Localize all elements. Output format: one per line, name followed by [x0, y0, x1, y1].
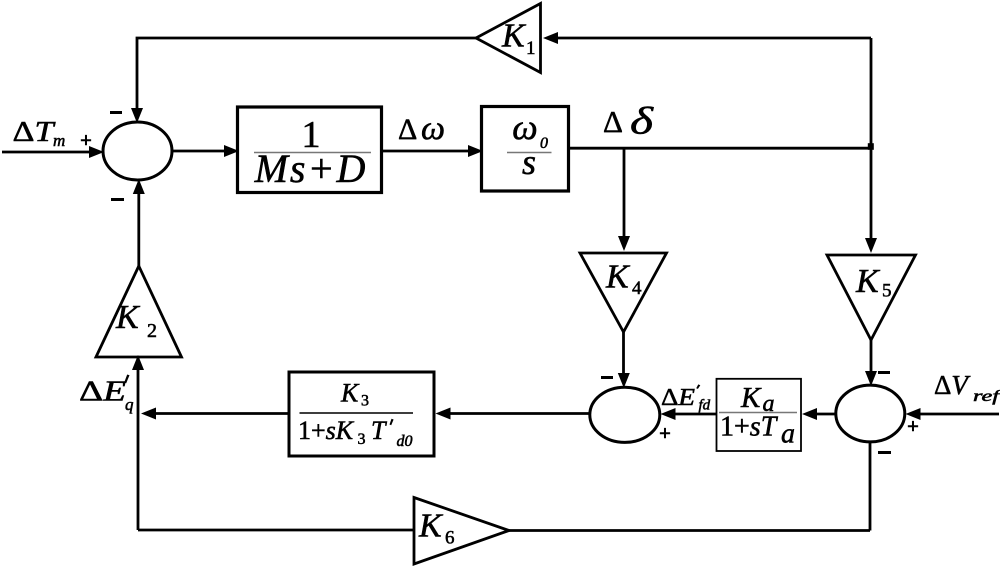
arrowhead into S1 bottom	[133, 179, 145, 194]
svg-text:+: +	[907, 414, 919, 438]
block B2 w0/s	[482, 107, 569, 192]
wire: right vertical rail bottom	[869, 442, 872, 531]
wire: S2 to B3	[445, 412, 590, 415]
svg-text:Ms+D: Ms+D	[254, 146, 368, 191]
svg-text:4: 4	[632, 278, 642, 299]
gain triangle K6	[414, 498, 509, 565]
block B4 text: Ka / 1+sTa	[719, 382, 797, 450]
arrowhead into S3 top	[865, 371, 877, 386]
wire: bottom rail left of K6	[138, 529, 414, 532]
summing junction S2	[590, 387, 660, 442]
wire: delta-omega row S1 to B1	[172, 150, 229, 153]
svg-text:Δ: Δ	[398, 113, 417, 146]
wire: delta line B2 to right rail	[569, 147, 872, 150]
label dEq'	[79, 375, 134, 415]
arrowhead into S1 left	[89, 146, 104, 158]
summing junction S1	[103, 122, 172, 180]
svg-text:+: +	[80, 128, 92, 152]
wire: B3 output to dEq node	[153, 412, 289, 415]
svg-text:1: 1	[526, 38, 536, 59]
arrowhead into K1 right edge	[543, 32, 558, 44]
svg-text:K: K	[115, 299, 141, 336]
svg-text:a: a	[781, 419, 795, 450]
svg-text:3: 3	[358, 431, 366, 448]
block B3 text: K3 / 1+sK3Td0'	[298, 379, 413, 451]
arrowhead into S1 top	[131, 108, 143, 123]
svg-text:q: q	[125, 395, 134, 414]
svg-text:K: K	[855, 263, 881, 300]
svg-text:6: 6	[445, 528, 455, 549]
sign - above S3	[878, 371, 890, 374]
svg-text:K: K	[740, 382, 762, 414]
svg-text:K: K	[501, 18, 527, 55]
sign - above S2	[601, 376, 613, 379]
svg-text:m: m	[53, 131, 65, 150]
svg-text:ω: ω	[421, 110, 445, 147]
sign - above S1	[110, 111, 122, 114]
label K5	[855, 263, 892, 302]
wire: top feedback horizontal left (K1 apex to left corner)	[137, 38, 476, 113]
svg-text:ΔV: ΔV	[934, 370, 971, 400]
junction nub on right rail	[868, 143, 874, 150]
arrowhead into dEq node	[141, 408, 156, 420]
svg-text:2: 2	[147, 320, 157, 342]
svg-text:ΔT: ΔT	[13, 116, 56, 148]
sign - below S3	[878, 451, 891, 454]
svg-text:ω: ω	[512, 107, 537, 147]
svg-text:5: 5	[882, 281, 892, 302]
wire: dVref input	[915, 413, 999, 416]
wire: K4 apex to S2	[622, 332, 625, 376]
svg-text:ΔE: ΔE	[661, 385, 695, 411]
svg-text:K: K	[340, 379, 360, 408]
svg-text:K: K	[418, 508, 444, 545]
arrowhead into B3 right	[436, 408, 451, 420]
arrowhead into B2 left	[468, 145, 483, 157]
svg-text:d0: d0	[397, 433, 413, 450]
svg-text:1+sT: 1+sT	[720, 412, 779, 443]
block B1 1/(Ms+D)	[238, 107, 382, 193]
wire: branch down to K4	[623, 148, 626, 240]
svg-text:ΔE: ΔE	[79, 376, 126, 408]
label dEfd'	[661, 384, 711, 413]
wire: input dTm horizontal	[2, 151, 95, 154]
svg-text:T: T	[371, 416, 387, 445]
svg-text:3: 3	[361, 393, 369, 410]
svg-text:1+sK: 1+sK	[298, 416, 355, 445]
svg-text:fd: fd	[699, 398, 711, 414]
arrowhead into S2 top	[618, 373, 630, 388]
svg-text:0: 0	[540, 135, 548, 152]
wire: right vertical rail top	[870, 38, 873, 240]
wire: B4 to S2	[671, 413, 717, 416]
arrowhead into K4 top	[618, 236, 630, 251]
svg-text:ref: ref	[973, 388, 1000, 405]
wire: B1 to B2	[382, 150, 474, 153]
block B4 Ka/(1+sTa)	[717, 379, 802, 451]
arrowhead into B4 right	[802, 408, 817, 420]
svg-text:K: K	[605, 259, 631, 296]
gain triangle K1	[476, 4, 541, 73]
arrowhead into S2 right	[661, 408, 676, 420]
label dVref	[934, 370, 1000, 405]
wire: top feedback horizontal right (right rail to K1)	[556, 37, 871, 40]
arrowhead into K2 base	[132, 355, 144, 370]
sign - below S1	[111, 198, 124, 201]
summing junction S3	[836, 385, 905, 442]
arrowhead into S3 right	[906, 408, 921, 420]
label dTm	[13, 116, 66, 150]
svg-text:s: s	[522, 142, 536, 182]
wire: left vertical K2-base to bottom	[137, 357, 140, 530]
gain triangle K4	[580, 253, 667, 332]
wire: bottom rail right of K6	[509, 529, 870, 532]
label K6	[418, 508, 455, 549]
sign + at S1 input	[80, 111, 919, 454]
label K1	[501, 18, 536, 60]
block B2 text: w0 / s	[507, 107, 552, 182]
wire: S3 to B4	[812, 413, 836, 416]
gain triangle K2	[96, 266, 182, 357]
wire: S1 bottom to K2 apex	[137, 192, 140, 266]
svg-text:δ: δ	[630, 101, 655, 143]
wire: K5 apex to S3	[870, 340, 873, 374]
label K2	[115, 299, 157, 342]
gain triangle K5	[827, 255, 916, 340]
block B1 text: 1 / Ms+D	[254, 114, 371, 191]
label K4	[605, 259, 642, 300]
svg-text:+: +	[659, 421, 671, 445]
arrowhead into K5 top	[865, 238, 877, 253]
arrowhead into B1 left	[224, 145, 239, 157]
svg-text:Δ: Δ	[603, 104, 623, 139]
block B3 K3/(1+sK3Td0)	[289, 372, 434, 456]
